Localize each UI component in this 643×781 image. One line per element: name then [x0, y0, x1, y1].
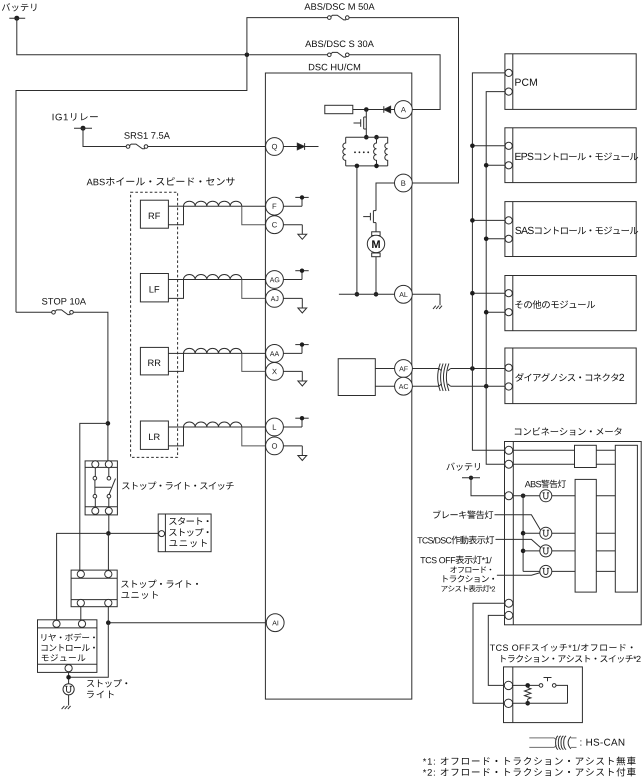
- legend twisted pair symbol: [529, 736, 576, 750]
- connectors EPS control module: [505, 142, 512, 169]
- TCS switch connectors: [504, 681, 512, 707]
- wire feed branch down-left: [16, 55, 247, 313]
- wire split to terminal X: [242, 353, 266, 371]
- transistor Q1 fet: [354, 117, 367, 129]
- label rear body module: [42, 633, 95, 641]
- wire FET2 to motor: [375, 223, 377, 232]
- junction AL rail 2: [374, 292, 379, 297]
- wire meter lamp4: [523, 570, 575, 572]
- box EPS control module: [505, 128, 636, 183]
- node IG1 relay: [74, 126, 92, 131]
- box SAS control module: [505, 202, 636, 257]
- solenoid coil 2: [374, 137, 377, 166]
- signal ground O: [283, 446, 306, 461]
- warning lamp brake: [540, 527, 552, 539]
- junction AL rail 1: [355, 292, 360, 297]
- wire CAN H internal: [375, 368, 394, 370]
- stub EPS L: [484, 163, 505, 168]
- junction CAN L bus: [484, 384, 489, 389]
- wire AI branch down: [69, 623, 109, 678]
- TCS switch box: [504, 667, 583, 723]
- warning lamp TCS/DSC: [540, 545, 552, 557]
- fuse ABS/DSC M 50A: [304, 3, 374, 20]
- wire coil to terminal AG: [242, 279, 266, 281]
- label stop light unit: [121, 580, 198, 588]
- warning lamp ABS: [540, 490, 552, 502]
- wire to start stop unit: [108, 532, 158, 534]
- label stop light switch: [122, 481, 234, 489]
- twisted pair CAN: [438, 364, 451, 392]
- pointer TCS/DSC: [496, 539, 541, 547]
- valve solenoid rect: [325, 105, 353, 113]
- label LF: [150, 286, 160, 292]
- terminal AF: [395, 360, 413, 378]
- pull-up node AA: [283, 342, 308, 353]
- warning lamp TCS OFF: [540, 565, 552, 577]
- label TCS OFF switch line2: [501, 655, 640, 663]
- wire valve to diode: [353, 109, 384, 111]
- wire battery to meter: [471, 478, 505, 496]
- junction CAN H bus: [470, 366, 475, 371]
- label diagnosis connector 2: [515, 373, 624, 382]
- motor M: [367, 232, 384, 257]
- stop light unit connectors: [77, 571, 112, 607]
- signal ground C: [283, 225, 306, 240]
- stop light lamp: [63, 684, 74, 695]
- terminal AG: [266, 271, 284, 289]
- junction coil top1: [364, 135, 369, 140]
- terminal A: [395, 101, 413, 119]
- wire RR pin1: [168, 352, 183, 354]
- wire FET1 drain: [365, 110, 367, 138]
- dashed enclosure wheel sensors: [131, 192, 178, 457]
- label DSC HU/CM: [309, 64, 360, 71]
- sensor LF box: [140, 274, 168, 302]
- ellipsis dots coil bank: [354, 151, 369, 153]
- rear body module connectors: [53, 620, 86, 672]
- pointer brake lamp: [495, 515, 541, 530]
- junction stop light branch: [106, 421, 111, 426]
- label PCM: [515, 79, 537, 86]
- diode D2: [384, 106, 395, 113]
- fuse STOP 10A: [42, 298, 86, 315]
- junction coil bottom1: [355, 164, 360, 169]
- wire branch to stop light unit: [80, 423, 108, 570]
- wire B to FET2: [376, 183, 395, 211]
- wire AI row: [108, 622, 266, 624]
- chassis ground stop lamp: [62, 695, 71, 709]
- solenoid coil bank rails: [346, 137, 388, 166]
- pull-up node F: [283, 195, 308, 206]
- label start stop unit: [169, 517, 208, 525]
- wire coil to terminal L: [242, 426, 266, 428]
- wire split to terminal O: [242, 427, 266, 446]
- sensor LR box: [140, 421, 168, 449]
- stop light switch box: [85, 461, 117, 515]
- box PCM: [505, 54, 636, 110]
- junction start stop: [106, 531, 111, 536]
- label TCS OFF indicator: [420, 555, 491, 563]
- wire RF pin1: [168, 205, 183, 207]
- pull-up node AG: [283, 269, 308, 280]
- wire meter lamp2: [523, 532, 575, 534]
- start stop unit connector: [159, 531, 165, 537]
- stop light switch contacts: [93, 476, 111, 498]
- fuse SRS1 7.5A: [124, 132, 170, 149]
- wire meter lamp3: [523, 550, 575, 552]
- wire switch to start stop unit: [108, 515, 110, 534]
- wire unit to rear body: [80, 607, 82, 621]
- sensor RF box: [140, 200, 168, 228]
- meter row2 wires: [512, 463, 615, 465]
- terminal AJ: [266, 290, 284, 308]
- connectors SAS control module: [505, 217, 512, 243]
- junction AI row: [106, 620, 111, 625]
- connectors other modules: [505, 290, 512, 316]
- wire meter lamp1: [512, 495, 575, 497]
- meter row1 wires: [512, 449, 615, 451]
- wire TCS top: [512, 684, 539, 686]
- wire S-fuse to terminal A: [349, 55, 440, 110]
- rear body control module box: [38, 620, 97, 673]
- lamp branch vertical: [522, 496, 524, 572]
- stub other H: [470, 291, 505, 296]
- wire switch down to stop light unit: [107, 533, 109, 570]
- wire motor to AL rail: [375, 257, 377, 295]
- wire LF pin2: [168, 280, 183, 299]
- node battery B+: [9, 16, 25, 21]
- wire meter c4 to switch: [473, 603, 505, 703]
- wire coil to terminal AA: [242, 352, 266, 354]
- sensor RR box: [140, 347, 168, 375]
- CAN bus H line: [472, 73, 505, 450]
- wire IG1 to SRS1 fuse: [83, 128, 126, 146]
- stop light switch blades: [95, 479, 116, 495]
- label battery: [2, 3, 37, 11]
- wire CAN L external: [412, 385, 505, 387]
- signal ground X: [283, 371, 306, 386]
- junction A-FET1: [364, 107, 369, 112]
- label TCS/DSC indicator: [417, 536, 494, 545]
- diode D1: [283, 143, 318, 150]
- wire TCS right loop: [556, 685, 568, 703]
- label LR: [149, 434, 160, 440]
- label brake warning lamp: [433, 510, 493, 519]
- wire TCS bottom: [512, 702, 568, 704]
- stop light switch stems: [95, 467, 109, 507]
- wire CAN L internal: [375, 385, 394, 387]
- wire coil bank to AL rail: [356, 166, 358, 294]
- stub SAS H: [470, 218, 505, 223]
- twisted pair coil LF: [184, 275, 242, 280]
- CAN bus L line: [486, 92, 505, 465]
- connectors PCM: [505, 69, 512, 95]
- terminal F: [266, 197, 284, 215]
- label stop light: [87, 679, 127, 687]
- label TCS OFF switch line1: [490, 644, 633, 652]
- solenoid coil 1: [343, 137, 346, 166]
- junction lamp branch: [521, 494, 526, 499]
- wire STOP fuse to stop light switch: [73, 312, 108, 461]
- node battery meter: [462, 476, 480, 480]
- terminal C: [266, 216, 284, 234]
- junction TCS R top: [525, 683, 530, 688]
- terminal X: [266, 363, 284, 381]
- pull-up node L: [283, 416, 308, 427]
- label battery meter: [446, 462, 480, 470]
- box diagnosis connector 2: [505, 348, 636, 404]
- terminal AI: [266, 614, 284, 632]
- twisted pair coil LR: [184, 422, 242, 427]
- footnote 2: [423, 768, 636, 777]
- meter inner rect mid: [575, 479, 596, 592]
- twisted pair coil RR: [184, 348, 242, 353]
- label RF: [149, 213, 160, 219]
- wire S-fuse feed: [249, 54, 327, 56]
- wire unit to AI junction: [107, 607, 109, 623]
- terminal AL: [395, 285, 413, 303]
- junction lamp2: [521, 531, 526, 536]
- box DSC HU/CM: [265, 73, 411, 699]
- meter inner rect right: [615, 445, 637, 592]
- wire AL rail: [339, 293, 395, 295]
- junction main feed: [245, 53, 250, 58]
- terminal AC: [395, 377, 413, 395]
- wire RF pin2: [168, 206, 183, 225]
- wire split to terminal C: [242, 206, 266, 225]
- wire STOP feed segment: [16, 311, 52, 313]
- wire branch to rear body module: [57, 533, 109, 620]
- CAN controller box: [338, 359, 375, 396]
- wire AL to ground: [412, 293, 440, 295]
- junction stop lamp: [66, 675, 71, 680]
- connectors diagnosis connector 2: [505, 364, 512, 390]
- terminal Q: [266, 138, 284, 156]
- wire CAN H external: [412, 368, 505, 370]
- stop light unit box: [71, 570, 117, 607]
- label combination meter: [515, 427, 622, 435]
- terminal L: [266, 418, 284, 436]
- wire battery to fuse row: [17, 18, 247, 55]
- junction coil top2: [374, 135, 379, 140]
- label ABS wheel speed sensors: [87, 177, 235, 186]
- terminal AA: [266, 345, 284, 363]
- wire feed up to M-fuse line: [247, 18, 328, 55]
- terminal B: [395, 174, 413, 192]
- footnote 1: [423, 757, 636, 766]
- fuse ABS/DSC S 30A: [305, 40, 374, 57]
- label EPS control module: [515, 153, 638, 161]
- junction TCS R bottom: [525, 701, 530, 706]
- label HS-CAN: [580, 739, 624, 746]
- chassis ground AL: [433, 294, 442, 309]
- wire rear body to stop lamp: [68, 672, 70, 684]
- stop light switch connectors: [92, 461, 113, 515]
- start stop unit box: [158, 514, 211, 552]
- label SAS control module: [515, 227, 638, 235]
- transistor Q2 fet: [363, 211, 376, 223]
- label IG1 relay: [53, 113, 98, 121]
- wire LR pin1: [168, 426, 183, 428]
- meter inner rect top: [575, 445, 597, 467]
- resistor R1: [525, 685, 531, 703]
- twisted pair coil RF: [184, 201, 242, 206]
- pointer TCS OFF lamp: [497, 573, 540, 576]
- label RR: [148, 360, 160, 366]
- meter connectors: [505, 446, 513, 619]
- label other modules: [515, 300, 595, 309]
- junction lamp3: [521, 549, 526, 554]
- wire coil to terminal F: [242, 205, 266, 207]
- junction coil bottom2: [374, 164, 379, 169]
- label ABS warning lamp: [525, 480, 566, 488]
- terminal O: [266, 437, 284, 455]
- stub SAS L: [484, 237, 505, 242]
- wire RR pin2: [168, 353, 183, 371]
- box other modules: [505, 276, 636, 331]
- wire SRS1 to terminal Q: [148, 146, 266, 148]
- push switch TCS: [539, 678, 556, 688]
- meter lamp outputs: [596, 496, 615, 572]
- wire split to terminal AJ: [242, 280, 266, 299]
- wire meter c5 to switch: [488, 615, 505, 685]
- wire LF pin1: [168, 279, 183, 281]
- combination meter box: [505, 442, 642, 625]
- stub other L: [484, 310, 505, 315]
- wire M-fuse to terminal B: [349, 18, 458, 183]
- solenoid coil 3: [385, 137, 388, 166]
- stub EPS H: [470, 144, 505, 149]
- wire LR pin2: [168, 427, 183, 446]
- signal ground AJ: [283, 298, 306, 313]
